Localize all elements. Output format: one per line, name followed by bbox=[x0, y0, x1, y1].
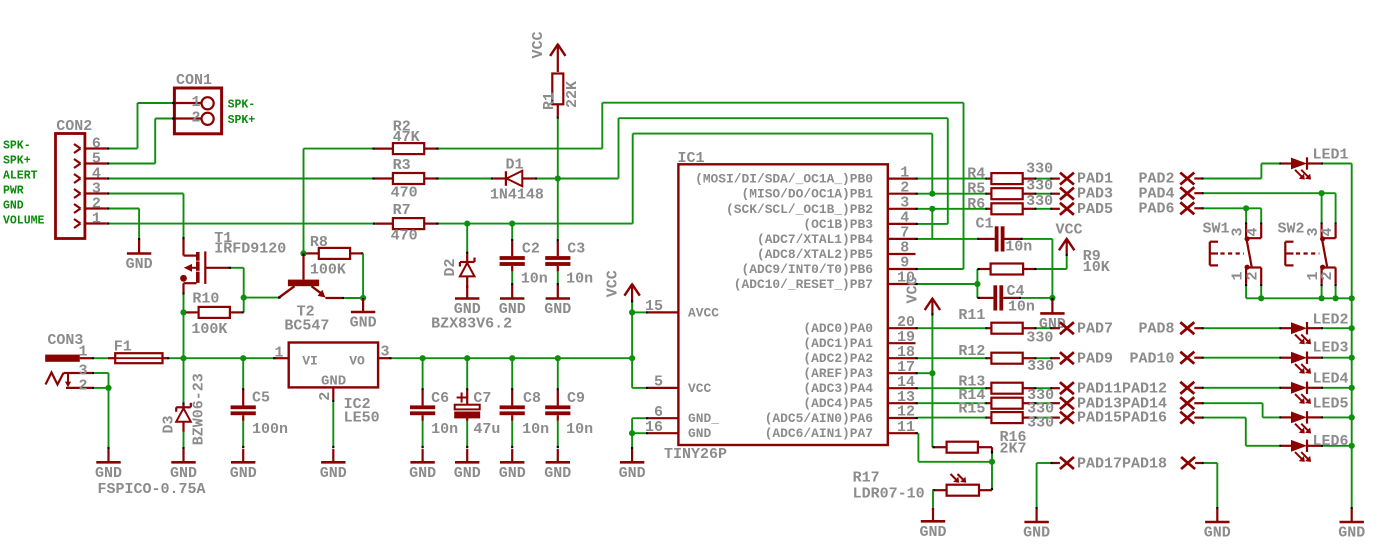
svg-text:100K: 100K bbox=[310, 262, 346, 279]
svg-text:16: 16 bbox=[645, 419, 663, 436]
svg-text:470: 470 bbox=[391, 185, 418, 202]
svg-text:LED5: LED5 bbox=[1313, 396, 1349, 413]
svg-text:C7: C7 bbox=[473, 390, 491, 407]
svg-text:GND: GND bbox=[454, 465, 481, 482]
svg-text:LED4: LED4 bbox=[1313, 371, 1349, 388]
svg-text:GND: GND bbox=[320, 465, 347, 482]
svg-text:VCC: VCC bbox=[605, 270, 622, 297]
svg-text:R8: R8 bbox=[310, 234, 328, 251]
svg-text:R15: R15 bbox=[958, 401, 985, 418]
svg-text:PAD5: PAD5 bbox=[1077, 201, 1113, 218]
svg-text:(MISO/DO/OC1A)PB1: (MISO/DO/OC1A)PB1 bbox=[741, 187, 873, 202]
svg-text:330: 330 bbox=[1027, 358, 1054, 375]
svg-text:(ADC2)PA2: (ADC2)PA2 bbox=[803, 351, 873, 366]
svg-text:GND: GND bbox=[126, 256, 153, 273]
svg-text:2: 2 bbox=[1319, 271, 1336, 280]
svg-text:(ADC3)PA4: (ADC3)PA4 bbox=[803, 381, 873, 396]
svg-text:2: 2 bbox=[191, 110, 200, 127]
svg-text:PAD9: PAD9 bbox=[1077, 350, 1113, 367]
svg-text:4: 4 bbox=[1245, 227, 1262, 236]
svg-text:100n: 100n bbox=[252, 421, 288, 438]
svg-text:GND: GND bbox=[499, 465, 526, 482]
svg-text:2: 2 bbox=[1245, 271, 1262, 280]
svg-text:SPK+: SPK+ bbox=[228, 114, 256, 127]
svg-text:(ADC0)PA0: (ADC0)PA0 bbox=[803, 321, 873, 336]
svg-text:GND: GND bbox=[688, 426, 711, 441]
svg-text:GND: GND bbox=[544, 465, 571, 482]
svg-text:IRFD9120: IRFD9120 bbox=[214, 241, 286, 258]
svg-text:330: 330 bbox=[1026, 161, 1053, 178]
svg-text:LED3: LED3 bbox=[1313, 340, 1349, 357]
svg-text:1: 1 bbox=[191, 94, 200, 111]
svg-text:C9: C9 bbox=[567, 390, 585, 407]
svg-text:VCC: VCC bbox=[688, 381, 711, 396]
svg-text:C8: C8 bbox=[523, 390, 541, 407]
svg-text:SPK+: SPK+ bbox=[3, 155, 31, 168]
svg-text:330: 330 bbox=[1026, 178, 1053, 195]
svg-text:VOLUME: VOLUME bbox=[3, 215, 45, 228]
svg-text:BZW06-23: BZW06-23 bbox=[190, 373, 207, 445]
svg-text:(MOSI/DI/SDA/_OC1A_)PB0: (MOSI/DI/SDA/_OC1A_)PB0 bbox=[695, 172, 873, 187]
svg-text:AVCC: AVCC bbox=[688, 305, 719, 320]
svg-text:FSPICO-0.75A: FSPICO-0.75A bbox=[98, 481, 206, 498]
svg-text:SPK-: SPK- bbox=[3, 140, 31, 153]
svg-text:LDR07-10: LDR07-10 bbox=[853, 485, 925, 502]
svg-text:5: 5 bbox=[654, 374, 663, 391]
svg-text:SPK-: SPK- bbox=[228, 99, 256, 112]
svg-text:(ADC4)PA5: (ADC4)PA5 bbox=[803, 396, 873, 411]
svg-text:100K: 100K bbox=[191, 321, 227, 338]
svg-text:10n: 10n bbox=[1008, 298, 1035, 315]
svg-text:GND: GND bbox=[409, 465, 436, 482]
svg-text:47K: 47K bbox=[393, 129, 420, 146]
svg-text:1: 1 bbox=[92, 211, 101, 228]
svg-text:R12: R12 bbox=[958, 343, 985, 360]
svg-text:PAD6: PAD6 bbox=[1138, 201, 1174, 218]
svg-text:330: 330 bbox=[1026, 193, 1053, 210]
svg-text:GND_: GND_ bbox=[688, 411, 719, 426]
svg-text:R7: R7 bbox=[393, 202, 411, 219]
svg-text:CON1: CON1 bbox=[176, 72, 212, 89]
svg-text:PAD7: PAD7 bbox=[1077, 320, 1113, 337]
svg-text:2: 2 bbox=[78, 377, 87, 394]
svg-text:1N4148: 1N4148 bbox=[490, 187, 544, 204]
svg-text:IC1: IC1 bbox=[678, 150, 705, 167]
svg-text:(ADC7/XTAL1)PB4: (ADC7/XTAL1)PB4 bbox=[757, 232, 873, 247]
svg-text:SW1: SW1 bbox=[1203, 221, 1230, 238]
svg-text:C5: C5 bbox=[252, 390, 270, 407]
svg-text:LE50: LE50 bbox=[344, 410, 380, 427]
svg-text:C1: C1 bbox=[976, 216, 994, 233]
svg-text:(ADC6/AIN1)PA7: (ADC6/AIN1)PA7 bbox=[765, 426, 873, 441]
svg-text:GND: GND bbox=[170, 465, 197, 482]
svg-text:10n: 10n bbox=[521, 271, 548, 288]
svg-text:R11: R11 bbox=[958, 307, 985, 324]
svg-text:C2: C2 bbox=[522, 241, 540, 258]
svg-text:GND: GND bbox=[1023, 525, 1050, 542]
svg-text:PAD17PAD18: PAD17PAD18 bbox=[1077, 455, 1167, 472]
svg-text:GND: GND bbox=[1204, 525, 1231, 542]
svg-text:PAD10: PAD10 bbox=[1129, 350, 1174, 367]
svg-text:2K7: 2K7 bbox=[1000, 441, 1027, 458]
svg-text:GND: GND bbox=[919, 524, 946, 541]
svg-text:GND: GND bbox=[1338, 525, 1365, 542]
svg-text:47u: 47u bbox=[473, 421, 500, 438]
svg-text:330: 330 bbox=[1027, 415, 1054, 432]
svg-text:10n: 10n bbox=[566, 421, 593, 438]
svg-text:(ADC1)PA1: (ADC1)PA1 bbox=[803, 336, 873, 351]
svg-text:(SCK/SCL/_OC1B_)PB2: (SCK/SCL/_OC1B_)PB2 bbox=[726, 202, 873, 217]
svg-text:ALERT: ALERT bbox=[3, 170, 38, 183]
svg-text:PAD8: PAD8 bbox=[1138, 320, 1174, 337]
svg-text:10n: 10n bbox=[522, 421, 549, 438]
svg-text:D2: D2 bbox=[442, 258, 459, 276]
svg-text:C3: C3 bbox=[567, 241, 585, 258]
svg-text:(OC1B)PB3: (OC1B)PB3 bbox=[803, 217, 873, 232]
svg-text:R6: R6 bbox=[967, 196, 985, 213]
svg-text:VCC: VCC bbox=[1056, 222, 1083, 239]
svg-text:R10: R10 bbox=[192, 291, 219, 308]
svg-text:R1: R1 bbox=[541, 92, 558, 110]
svg-text:VI: VI bbox=[302, 353, 318, 368]
svg-text:VO: VO bbox=[349, 353, 365, 368]
svg-text:LED1: LED1 bbox=[1313, 147, 1349, 164]
svg-text:CON2: CON2 bbox=[56, 118, 92, 135]
svg-text:GND: GND bbox=[619, 465, 646, 482]
svg-text:10n: 10n bbox=[566, 271, 593, 288]
svg-text:LED2: LED2 bbox=[1313, 311, 1349, 328]
svg-text:(ADC8/XTAL2)PB5: (ADC8/XTAL2)PB5 bbox=[757, 247, 873, 262]
svg-text:10n: 10n bbox=[431, 421, 458, 438]
svg-text:VCC: VCC bbox=[904, 276, 921, 303]
svg-text:BC547: BC547 bbox=[284, 318, 329, 335]
svg-text:2: 2 bbox=[317, 392, 334, 401]
svg-text:(ADC9/INT0/T0)PB6: (ADC9/INT0/T0)PB6 bbox=[741, 262, 873, 277]
svg-text:D1: D1 bbox=[506, 157, 524, 174]
svg-text:PWR: PWR bbox=[3, 185, 24, 198]
svg-text:C6: C6 bbox=[431, 390, 449, 407]
svg-text:10K: 10K bbox=[1083, 259, 1110, 276]
svg-text:GND: GND bbox=[350, 315, 377, 332]
svg-text:10n: 10n bbox=[1005, 239, 1032, 256]
svg-text:TINY26P: TINY26P bbox=[664, 446, 727, 463]
svg-text:GND: GND bbox=[499, 301, 526, 318]
svg-text:11: 11 bbox=[897, 419, 915, 436]
svg-text:1: 1 bbox=[78, 344, 87, 361]
svg-text:470: 470 bbox=[391, 228, 418, 245]
svg-text:1: 1 bbox=[274, 345, 283, 362]
svg-text:(ADC5/AIN0)PA6: (ADC5/AIN0)PA6 bbox=[765, 411, 874, 426]
svg-text:R3: R3 bbox=[393, 157, 411, 174]
svg-text:SW2: SW2 bbox=[1278, 221, 1305, 238]
svg-text:4: 4 bbox=[1319, 227, 1336, 236]
svg-text:GND: GND bbox=[321, 374, 346, 390]
svg-text:330: 330 bbox=[1026, 330, 1053, 347]
svg-text:VCC: VCC bbox=[530, 31, 547, 58]
svg-text:R17: R17 bbox=[853, 470, 880, 487]
svg-text:GND: GND bbox=[95, 465, 122, 482]
svg-text:GND: GND bbox=[544, 301, 571, 318]
svg-text:PAD15PAD16: PAD15PAD16 bbox=[1077, 410, 1167, 427]
svg-text:D3: D3 bbox=[161, 415, 178, 433]
svg-text:15: 15 bbox=[645, 298, 663, 315]
svg-text:22K: 22K bbox=[564, 81, 581, 108]
svg-text:(AREF)PA3: (AREF)PA3 bbox=[803, 366, 873, 381]
svg-text:(ADC10/_RESET_)PB7: (ADC10/_RESET_)PB7 bbox=[734, 277, 873, 292]
svg-text:GND: GND bbox=[3, 200, 24, 213]
svg-text:LED6: LED6 bbox=[1313, 433, 1349, 450]
svg-text:GND: GND bbox=[230, 465, 257, 482]
